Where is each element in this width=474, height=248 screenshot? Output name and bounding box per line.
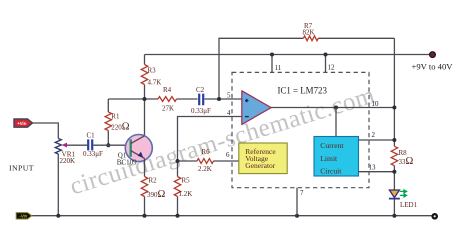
terminal output bottom xyxy=(433,214,437,218)
svg-text:Generator: Generator xyxy=(245,161,275,170)
terminal tag -Vin xyxy=(16,213,32,219)
resistor R6 xyxy=(197,159,214,164)
svg-text:C2: C2 xyxy=(196,86,205,94)
block Reference Voltage Generator xyxy=(239,143,287,174)
wire pin12 xyxy=(325,55,327,73)
wire pin11 xyxy=(271,55,273,73)
svg-text:Circuit: Circuit xyxy=(320,167,342,176)
svg-text:7: 7 xyxy=(300,189,304,197)
wire bottom rail xyxy=(31,215,432,217)
junction rail pin7 xyxy=(295,214,299,218)
svg-text:0.33μF: 0.33μF xyxy=(83,150,103,158)
capacitor C2 xyxy=(199,94,203,106)
LED1 light arrow 1 xyxy=(400,190,407,193)
junction output/right wire xyxy=(392,106,396,110)
svg-text:2: 2 xyxy=(372,131,376,139)
op-amp U1 triangle xyxy=(242,91,271,125)
svg-text:10: 10 xyxy=(372,100,380,108)
resistor R8 xyxy=(391,146,397,165)
transistor Q1 body xyxy=(125,135,152,162)
junction pin2/R8 xyxy=(392,138,396,142)
wire top +V rail xyxy=(145,54,430,56)
svg-text:33Ω: 33Ω xyxy=(399,156,414,167)
wire pin2 xyxy=(359,139,395,141)
resistor R2 xyxy=(141,177,147,197)
wire C1 to base xyxy=(93,144,131,146)
svg-text:R6: R6 xyxy=(202,148,211,156)
capacitor C1 xyxy=(88,139,92,150)
svg-text:+9V to 40V: +9V to 40V xyxy=(412,61,454,71)
junction rail R5 xyxy=(176,214,180,218)
svg-text:BC109: BC109 xyxy=(117,158,137,166)
svg-text:390Ω: 390Ω xyxy=(147,189,166,200)
wire right vertical upper xyxy=(393,38,395,215)
LED1 cathode bar xyxy=(389,198,400,200)
terminal +9V to 40V xyxy=(430,52,436,58)
svg-text:Current: Current xyxy=(320,141,344,150)
op-amp plus input mark xyxy=(245,99,248,102)
junction R5/R6 xyxy=(176,159,180,163)
wire node-5 line xyxy=(108,98,241,100)
resistor R3 xyxy=(141,65,147,85)
junction pin13/R8 xyxy=(392,170,396,174)
junction output/climit xyxy=(334,106,338,110)
wire VR1 bottom xyxy=(57,154,59,216)
svg-text:5: 5 xyxy=(227,92,231,100)
junction rail VR1 xyxy=(56,214,60,218)
junction pin12 rail xyxy=(324,53,328,57)
svg-text:27K: 27K xyxy=(162,105,174,113)
transistor Q1 emitter stroke xyxy=(131,151,145,159)
svg-text:220Ω: 220Ω xyxy=(111,122,130,133)
transistor Q1 base bar xyxy=(129,139,131,156)
wire R6/pin6 line xyxy=(178,160,239,162)
svg-text:4.7K: 4.7K xyxy=(148,79,162,87)
op-amp minus input mark xyxy=(245,116,249,118)
svg-text:C1: C1 xyxy=(87,132,96,140)
resistor R5 xyxy=(174,177,180,197)
svg-text:6: 6 xyxy=(226,151,230,159)
junction node C2/pin5/R7 xyxy=(217,97,221,101)
wire output to current-limit box xyxy=(335,108,337,137)
wire R1 branch xyxy=(107,99,109,145)
transistor Q1 collector stroke xyxy=(131,136,145,144)
svg-text:R5: R5 xyxy=(182,176,191,184)
junction rail LED xyxy=(392,214,396,218)
potentiometer VR1 wiper arrow xyxy=(62,143,67,148)
junction node R3/R4/collector xyxy=(143,97,147,101)
svg-text:2.2K: 2.2K xyxy=(198,165,212,173)
svg-text:Limit: Limit xyxy=(320,154,338,163)
LED1 light arrow 2 xyxy=(400,194,407,197)
svg-text:+Vin: +Vin xyxy=(17,121,26,126)
wire R3 branch xyxy=(144,55,146,136)
svg-text:82K: 82K xyxy=(303,29,315,37)
block Current Limit Circuit xyxy=(314,137,359,177)
svg-text:R3: R3 xyxy=(148,67,157,75)
junction R1/base xyxy=(106,143,110,147)
wire emitter xyxy=(144,158,146,215)
svg-text:220K: 220K xyxy=(60,157,76,165)
svg-text:LED1: LED1 xyxy=(400,201,418,209)
wire +Vin feed xyxy=(33,123,59,139)
terminal tag +Vin xyxy=(14,119,33,127)
svg-text:-Vin: -Vin xyxy=(19,214,27,219)
resistor R1 xyxy=(105,112,111,131)
svg-text:11: 11 xyxy=(275,64,282,72)
transistor Q1 emitter arrowhead xyxy=(138,152,144,158)
wire pin10 output xyxy=(271,107,395,109)
wire pin4 / R5 branch xyxy=(178,117,242,216)
wire wiper to C1 xyxy=(67,144,88,146)
junction pin11 rail xyxy=(270,53,274,57)
resistor R4 xyxy=(158,97,177,102)
resistor R7 xyxy=(303,36,318,41)
svg-text:R1: R1 xyxy=(111,112,120,120)
wire R7 loop xyxy=(219,38,394,99)
LED1 diode xyxy=(389,190,399,198)
svg-text:R2: R2 xyxy=(149,176,158,184)
junction rail R2 xyxy=(143,214,147,218)
svg-text:12: 12 xyxy=(328,64,336,72)
svg-text:1.2K: 1.2K xyxy=(179,190,193,198)
potentiometer VR1 element xyxy=(55,139,61,155)
svg-text:0.33μF: 0.33μF xyxy=(191,107,211,115)
svg-text:4: 4 xyxy=(227,109,231,117)
svg-text:R4: R4 xyxy=(163,86,172,94)
svg-text:INPUT: INPUT xyxy=(9,164,34,173)
wire pin13 xyxy=(359,171,395,173)
svg-text:13: 13 xyxy=(369,164,377,172)
svg-text:IC1 = LM723: IC1 = LM723 xyxy=(278,86,328,96)
wire pin7 xyxy=(296,188,298,216)
IC dashed boundary box xyxy=(232,72,369,187)
